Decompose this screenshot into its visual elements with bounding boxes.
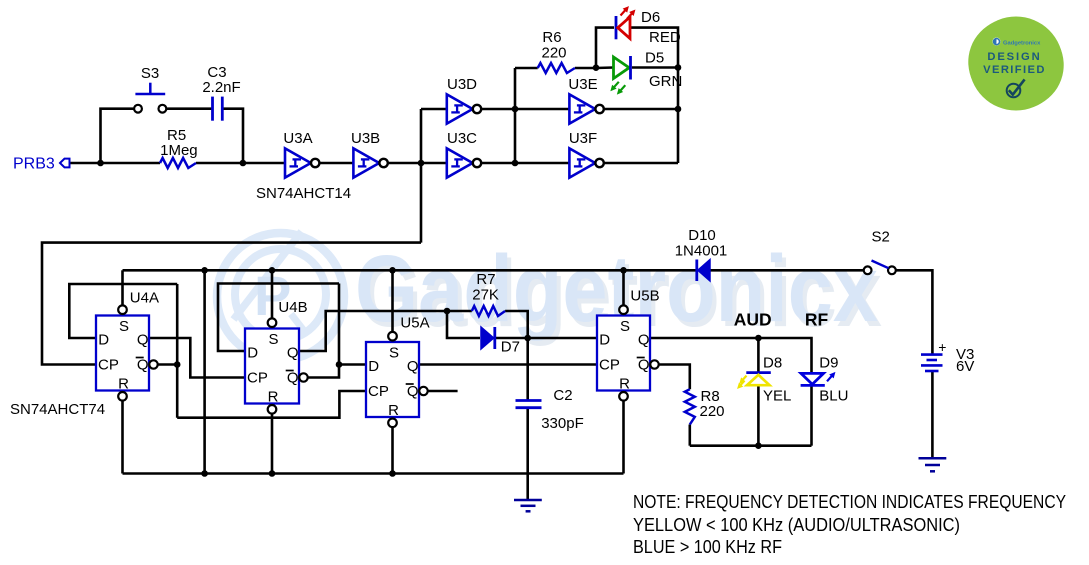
- flip-flop U4B: [245, 318, 308, 413]
- wire: [121, 270, 124, 306]
- wire: [42, 243, 421, 365]
- switch S2: [864, 261, 896, 275]
- svg-text:SN74AHCT74: SN74AHCT74: [10, 401, 105, 418]
- wire: [203, 270, 206, 473]
- svg-text:Q: Q: [137, 332, 149, 349]
- svg-text:VERIFIED: VERIFIED: [983, 64, 1046, 76]
- wire: [810, 385, 813, 446]
- svg-text:D: D: [247, 345, 258, 362]
- resistor R5: [160, 158, 196, 168]
- inverter U3C: [447, 148, 481, 177]
- wire: [338, 284, 341, 365]
- svg-text:330pF: 330pF: [541, 415, 584, 432]
- svg-text:Q: Q: [638, 332, 650, 349]
- wire: [319, 162, 353, 165]
- wire: [575, 67, 596, 70]
- svg-text:D5: D5: [645, 50, 664, 67]
- wire: [419, 363, 597, 366]
- svg-text:2.2nF: 2.2nF: [202, 79, 240, 96]
- wire: [688, 425, 691, 446]
- flip-flop U5A: [366, 332, 428, 427]
- junction: [755, 442, 762, 449]
- svg-text:S: S: [389, 344, 399, 361]
- svg-text:D7: D7: [501, 339, 520, 356]
- svg-text:CP: CP: [599, 357, 620, 374]
- LED D9 blue: [801, 373, 835, 386]
- ground (battery): [919, 458, 947, 471]
- svg-text:+: +: [938, 339, 946, 355]
- svg-text:S: S: [620, 318, 630, 335]
- svg-text:Q: Q: [407, 383, 419, 400]
- svg-text:BLUE > 100 KHz RF: BLUE > 100 KHz RF: [633, 536, 782, 557]
- svg-text:U3E: U3E: [568, 76, 597, 93]
- junction: [675, 64, 682, 71]
- wire: [622, 401, 625, 474]
- wire: [622, 270, 625, 305]
- switch S3: [134, 83, 166, 113]
- svg-text:R7: R7: [476, 271, 495, 288]
- LED D5 green: [611, 56, 630, 94]
- resistor R6: [538, 63, 575, 73]
- junction: [755, 335, 762, 342]
- wire: [222, 109, 243, 163]
- wire: [271, 414, 274, 474]
- svg-text:U3B: U3B: [351, 130, 380, 147]
- svg-text:RED: RED: [649, 29, 681, 46]
- wire: [166, 107, 212, 110]
- junction: [389, 267, 396, 274]
- svg-text:Q: Q: [287, 345, 299, 362]
- wire: [632, 66, 678, 69]
- wire: [299, 311, 447, 351]
- wire: [495, 337, 528, 340]
- wire: [650, 338, 812, 373]
- junction: [512, 106, 519, 113]
- svg-text:1Meg: 1Meg: [160, 142, 198, 159]
- svg-text:PRB3: PRB3: [13, 156, 55, 173]
- wire: [149, 338, 245, 378]
- junction: [418, 160, 425, 167]
- svg-text:27K: 27K: [472, 287, 499, 304]
- wire LED bottom rail: [690, 444, 812, 447]
- svg-text:RF: RF: [805, 310, 829, 330]
- svg-text:YELLOW < 100 KHz (AUDIO/ULTRAS: YELLOW < 100 KHz (AUDIO/ULTRASONIC): [633, 514, 960, 535]
- svg-text:Q: Q: [638, 357, 650, 374]
- junction: [201, 267, 208, 274]
- wire: [420, 109, 423, 243]
- capacitor C3: [213, 97, 223, 121]
- svg-text:GRN: GRN: [649, 73, 682, 90]
- svg-text:D: D: [98, 332, 109, 349]
- wire: [428, 390, 458, 393]
- svg-text:SN74AHCT14: SN74AHCT14: [256, 185, 351, 202]
- wire: [481, 108, 515, 111]
- wire: [218, 284, 339, 352]
- wire: [505, 311, 528, 338]
- junction: [201, 470, 208, 477]
- wire: [391, 270, 394, 332]
- svg-text:CP: CP: [98, 357, 119, 374]
- resistor R7: [472, 306, 505, 316]
- junction: [240, 160, 247, 167]
- svg-text:R: R: [268, 388, 279, 405]
- svg-text:YEL: YEL: [763, 388, 791, 405]
- junction: [389, 470, 396, 477]
- svg-text:U3A: U3A: [283, 130, 312, 147]
- design verified badge: [955, 4, 1076, 122]
- junction: [336, 361, 343, 368]
- wire: [604, 108, 678, 111]
- svg-text:S: S: [268, 331, 278, 348]
- svg-text:R6: R6: [542, 29, 561, 46]
- wire: [515, 162, 569, 165]
- svg-text:Q: Q: [407, 358, 419, 375]
- svg-text:Q: Q: [137, 357, 149, 374]
- diode D10: [697, 260, 710, 282]
- svg-text:C2: C2: [553, 387, 572, 404]
- flip-flop U4A: [96, 305, 158, 400]
- inverter U3D: [447, 94, 481, 123]
- wire: [515, 108, 569, 111]
- svg-text:S2: S2: [872, 229, 890, 246]
- junction: [593, 64, 600, 71]
- svg-text:U4A: U4A: [130, 290, 159, 307]
- svg-text:S3: S3: [141, 65, 159, 82]
- wire: [896, 270, 933, 354]
- svg-text:D8: D8: [763, 355, 782, 372]
- wire: [515, 67, 538, 70]
- wire: [481, 162, 515, 165]
- diode D7: [481, 327, 495, 349]
- wire: [710, 269, 864, 272]
- wire: [757, 338, 760, 373]
- svg-text:220: 220: [541, 45, 566, 62]
- wire: [176, 284, 179, 418]
- svg-text:U5B: U5B: [630, 288, 659, 305]
- svg-text:CP: CP: [247, 370, 268, 387]
- wire: [421, 108, 447, 111]
- wire: [604, 162, 678, 165]
- wire: [630, 28, 678, 163]
- svg-text:D6: D6: [641, 9, 660, 26]
- svg-text:R: R: [118, 375, 129, 392]
- junction: [512, 160, 519, 167]
- inverter U3E: [569, 94, 603, 123]
- wire: [931, 372, 934, 458]
- svg-text:1N4001: 1N4001: [675, 243, 728, 260]
- svg-text:R: R: [388, 402, 399, 419]
- wire: [447, 310, 472, 313]
- wire: [158, 363, 178, 366]
- LED D8 yellow: [738, 373, 771, 389]
- wire: [271, 270, 274, 318]
- svg-text:D10: D10: [688, 227, 716, 244]
- junction: [174, 361, 181, 368]
- wire: [196, 162, 285, 165]
- wire: [659, 365, 690, 390]
- inverter U3A: [285, 148, 319, 177]
- svg-text:BLU: BLU: [819, 388, 848, 405]
- junction: [269, 470, 276, 477]
- wire: [526, 408, 529, 499]
- wire: [121, 401, 124, 474]
- svg-text:D: D: [599, 332, 610, 349]
- svg-text:D: D: [368, 358, 379, 375]
- wire: [308, 365, 366, 378]
- capacitor C2: [516, 401, 542, 408]
- junction: [620, 267, 627, 274]
- junction: [675, 106, 682, 113]
- wire: [447, 311, 480, 338]
- svg-text:Q: Q: [287, 370, 299, 387]
- ground (C2): [514, 500, 542, 511]
- wire ground-rail: [123, 472, 624, 475]
- wire: [388, 162, 447, 165]
- svg-text:Gadgetronicx: Gadgetronicx: [1003, 40, 1041, 46]
- wire: [391, 427, 394, 473]
- inverter U3B: [353, 148, 387, 177]
- inverter U3F: [569, 148, 603, 177]
- junction: [524, 335, 531, 342]
- wire VCC rail: [123, 269, 697, 272]
- wire: [70, 162, 161, 165]
- svg-text:NOTE: FREQUENCY DETECTION INDI: NOTE: FREQUENCY DETECTION INDICATES FREQ…: [633, 491, 1066, 512]
- svg-text:D9: D9: [819, 355, 838, 372]
- port PRB3: [60, 159, 70, 168]
- svg-text:AUD: AUD: [734, 310, 772, 330]
- wire: [757, 386, 760, 446]
- junction: [269, 267, 276, 274]
- svg-text:U3C: U3C: [447, 130, 477, 147]
- watermark logo circle: [217, 232, 344, 361]
- svg-text:6V: 6V: [956, 358, 974, 375]
- junction: [444, 308, 451, 315]
- flip-flop U5B: [597, 305, 659, 400]
- resistor R8: [685, 389, 695, 424]
- svg-text:U5A: U5A: [400, 315, 429, 332]
- svg-text:DESIGN: DESIGN: [987, 51, 1041, 63]
- wire: [514, 68, 517, 163]
- wire: [69, 284, 177, 338]
- wire: [177, 391, 366, 418]
- svg-text:R: R: [619, 375, 630, 392]
- svg-text:U3F: U3F: [569, 130, 597, 147]
- wire: [528, 337, 597, 340]
- LED D6 red: [616, 7, 635, 39]
- svg-text:U4B: U4B: [278, 299, 307, 316]
- svg-text:U3D: U3D: [447, 76, 477, 93]
- wire: [526, 338, 529, 400]
- svg-text:CP: CP: [368, 383, 389, 400]
- svg-text:S: S: [119, 318, 129, 335]
- junction: [97, 160, 104, 167]
- svg-text:220: 220: [700, 403, 725, 420]
- wire: [596, 28, 614, 68]
- battery V3: [921, 355, 943, 371]
- wire: [596, 66, 614, 69]
- wire: [101, 109, 135, 163]
